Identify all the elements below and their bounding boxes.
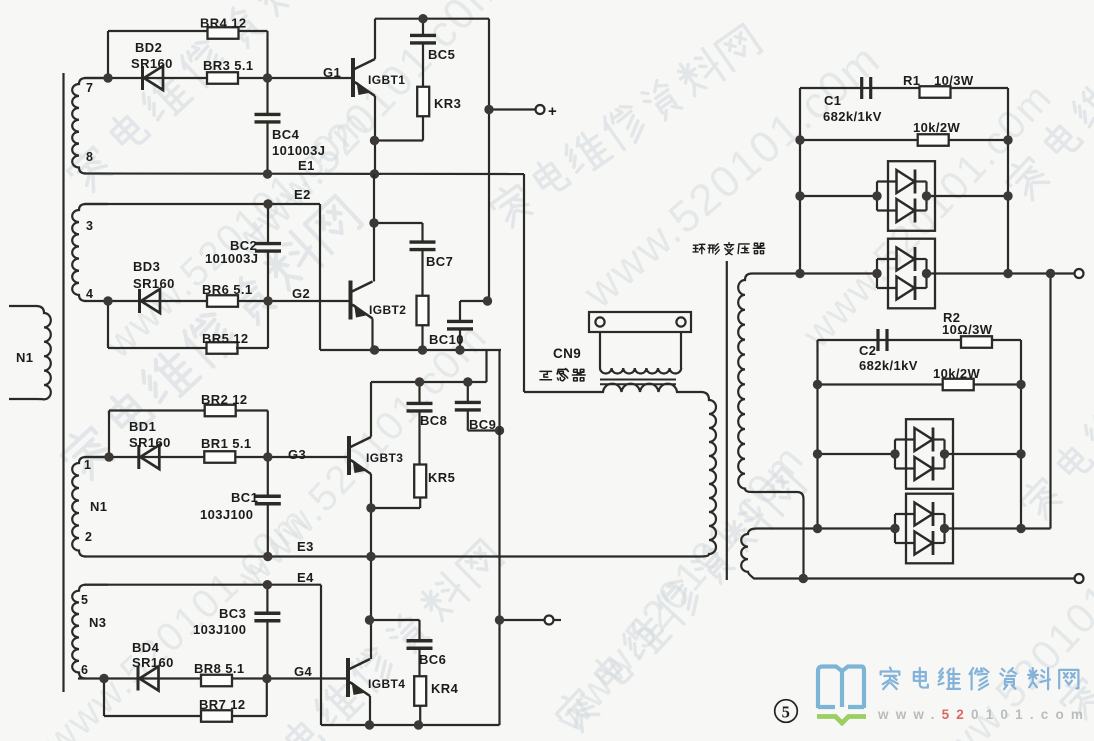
svg-text:BD1: BD1 [129,419,156,434]
svg-text:IGBT2: IGBT2 [369,303,406,317]
svg-text:BC1: BC1 [231,490,258,505]
svg-text:1: 1 [84,458,91,472]
svg-text:E3: E3 [297,539,314,554]
svg-text:BR3 5.1: BR3 5.1 [203,58,254,73]
svg-text:SR160: SR160 [131,56,173,71]
svg-text:103J100: 103J100 [200,507,253,522]
svg-text:+: + [548,103,557,120]
svg-text:BR7 12: BR7 12 [199,697,245,712]
svg-text:KR5: KR5 [428,470,455,485]
svg-text:CN9: CN9 [553,346,581,361]
svg-text:SR160: SR160 [133,276,175,291]
svg-text:E2: E2 [294,187,311,202]
svg-text:BD4: BD4 [132,640,160,655]
svg-text:BC4: BC4 [272,127,300,142]
svg-text:3: 3 [86,219,93,233]
svg-text:IGBT3: IGBT3 [366,451,403,465]
svg-text:C2: C2 [859,343,876,358]
svg-text:R1: R1 [903,73,920,88]
svg-text:6: 6 [81,663,88,677]
svg-text:10/3W: 10/3W [934,73,974,88]
svg-text:BC7: BC7 [426,254,453,269]
svg-text:10Ω/3W: 10Ω/3W [942,322,993,337]
svg-text:BD3: BD3 [133,259,160,274]
svg-text:682k/1kV: 682k/1kV [823,109,882,124]
svg-text:BC5: BC5 [428,47,455,62]
svg-text:KR4: KR4 [431,681,459,696]
svg-text:N1: N1 [16,350,33,365]
svg-text:BC8: BC8 [420,413,447,428]
svg-text:BR5 12: BR5 12 [202,331,248,346]
svg-text:10k/2W: 10k/2W [913,120,961,135]
svg-text:C1: C1 [824,93,841,108]
svg-text:SR160: SR160 [132,655,174,670]
svg-text:G2: G2 [292,286,310,301]
svg-text:E1: E1 [298,158,315,173]
svg-text:5: 5 [81,593,88,607]
svg-text:BC10: BC10 [429,332,464,347]
svg-text:BC3: BC3 [219,606,246,621]
svg-text:101003J: 101003J [205,251,258,266]
svg-text:N1: N1 [90,499,107,514]
svg-text:7: 7 [86,81,93,95]
svg-text:5: 5 [782,703,791,722]
svg-text:BR8 5.1: BR8 5.1 [194,661,245,676]
svg-text:103J100: 103J100 [193,622,246,637]
svg-text:IGBT1: IGBT1 [368,73,405,87]
svg-text:N3: N3 [89,615,106,630]
svg-text:4: 4 [86,287,93,301]
svg-text:BR4 12: BR4 12 [200,16,246,31]
svg-text:BR2 12: BR2 12 [201,392,247,407]
svg-text:SR160: SR160 [129,435,171,450]
svg-text:IGBT4: IGBT4 [368,677,405,691]
svg-text:10k/2W: 10k/2W [933,366,981,381]
svg-text:BR6 5.1: BR6 5.1 [202,282,253,297]
svg-text:G4: G4 [294,664,313,679]
svg-text:G1: G1 [323,65,341,80]
svg-text:8: 8 [86,150,93,164]
svg-text:101003J: 101003J [272,143,325,158]
svg-text:682k/1kV: 682k/1kV [859,358,918,373]
svg-text:BR1 5.1: BR1 5.1 [201,436,252,451]
svg-text:BC6: BC6 [419,652,446,667]
svg-text:BC9: BC9 [469,417,496,432]
svg-text:BD2: BD2 [135,40,162,55]
svg-text:G3: G3 [288,447,306,462]
svg-text:www.520101.com: www.520101.com [877,707,1090,722]
svg-text:E4: E4 [297,570,314,585]
svg-text:KR3: KR3 [434,96,461,111]
svg-text:2: 2 [85,530,92,544]
